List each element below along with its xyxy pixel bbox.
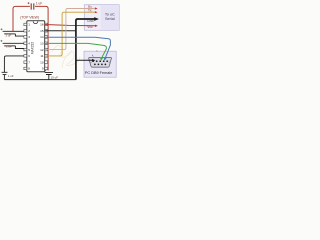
wire Rx pin12 to uC xyxy=(45,9,95,50)
tick mark above DB9 left xyxy=(96,50,97,53)
svg-text:10 uF: 10 uF xyxy=(51,75,59,79)
DB9 connector J1 shell xyxy=(89,58,112,68)
C2 link to pin3 xyxy=(15,34,24,36)
svg-text:2: 2 xyxy=(28,29,30,33)
C3 plate2 xyxy=(4,45,15,47)
wire red vertical VCC net xyxy=(35,6,48,70)
wire red top cap left lead xyxy=(13,6,30,31)
arrow Gnd xyxy=(94,17,99,21)
svg-text:9: 9 xyxy=(42,67,44,71)
wire pin6 to C4 xyxy=(4,56,24,72)
wire Gnd thick vertical xyxy=(76,19,95,80)
pin numbers left xyxy=(28,23,30,71)
DB9 screw right xyxy=(109,62,111,64)
C5 lead to rail xyxy=(48,75,50,80)
svg-text:MAX232: MAX232 xyxy=(30,42,34,54)
svg-text:12: 12 xyxy=(40,48,44,52)
uC serial box xyxy=(84,5,119,31)
arrow into DB9 pin5 xyxy=(92,59,95,62)
plus sign C3 xyxy=(0,40,2,42)
svg-text:14: 14 xyxy=(40,35,44,39)
C3 link to pin5 xyxy=(15,46,24,49)
svg-text:PC DB9 Female: PC DB9 Female xyxy=(85,71,112,75)
pin boxes left 1-8 xyxy=(24,23,27,69)
C5 plates xyxy=(45,72,53,74)
wire blue T1OUT pin14 to DB9 pin2 xyxy=(45,37,111,58)
svg-text:Gnd: Gnd xyxy=(87,19,93,23)
plus sign C1 xyxy=(28,2,30,4)
svg-text:5: 5 xyxy=(28,48,30,52)
pin numbers right xyxy=(40,23,44,71)
C2 plate1 wire to pin2 xyxy=(3,30,24,32)
watermark squiggle xyxy=(52,46,80,68)
IC notch xyxy=(33,21,38,23)
arrow blue xyxy=(104,57,107,60)
svg-text:To uC: To uC xyxy=(105,12,115,16)
IC U1 MAX232 body xyxy=(27,21,45,72)
C3 plate1 wire to pin4 xyxy=(3,42,24,44)
svg-text:4: 4 xyxy=(28,42,30,46)
arrow green xyxy=(100,57,103,60)
DB9 pins bottom row xyxy=(94,64,106,66)
DB9 screw left xyxy=(90,62,92,64)
svg-text:1 uF: 1 uF xyxy=(5,34,11,38)
svg-text:Serial: Serial xyxy=(105,17,115,21)
DB9 box xyxy=(84,51,116,77)
wire Vcc pin16 xyxy=(45,25,95,26)
capacitor C4 bottom-left 1uF xyxy=(2,72,8,74)
C2 plate2 xyxy=(4,33,15,35)
wire Gnd pin15 xyxy=(45,30,76,32)
wire Tx pin11 from uC xyxy=(45,12,95,56)
svg-text:(TOP VIEW): (TOP VIEW) xyxy=(20,16,39,20)
wire Gnd to DB9 pin5 xyxy=(76,59,93,61)
wire green R1IN pin13 from DB9 pin3 xyxy=(45,43,107,58)
capacitor C1 1uF plates xyxy=(31,3,34,9)
pin boxes right 16-9 xyxy=(45,23,48,69)
svg-text:1 uF: 1 uF xyxy=(36,1,42,5)
svg-text:16: 16 xyxy=(40,23,44,27)
svg-text:13: 13 xyxy=(40,42,44,46)
wire ground rail bottom xyxy=(4,79,76,81)
svg-text:1 uF: 1 uF xyxy=(8,74,14,78)
svg-text:1: 1 xyxy=(28,23,30,27)
tick above DB9 xyxy=(91,55,94,57)
DB9 pins top row xyxy=(92,60,108,62)
svg-text:3: 3 xyxy=(28,35,30,39)
svg-text:1 uF: 1 uF xyxy=(6,45,12,49)
svg-text:Tx: Tx xyxy=(88,9,92,13)
background xyxy=(0,0,120,87)
C4 lead to rail xyxy=(3,75,5,80)
svg-text:Vcc: Vcc xyxy=(87,25,93,29)
plus sign C2 xyxy=(1,28,3,30)
svg-text:15: 15 xyxy=(40,29,44,33)
plus sign C5 xyxy=(45,70,47,72)
svg-text:10: 10 xyxy=(40,60,44,64)
svg-text:7: 7 xyxy=(28,60,30,64)
arrow Rx xyxy=(95,7,98,9)
arrow Vcc xyxy=(95,25,98,27)
svg-text:8: 8 xyxy=(28,67,30,71)
arrow Tx xyxy=(95,11,98,13)
svg-text:6: 6 xyxy=(28,54,30,58)
svg-text:11: 11 xyxy=(40,54,43,58)
